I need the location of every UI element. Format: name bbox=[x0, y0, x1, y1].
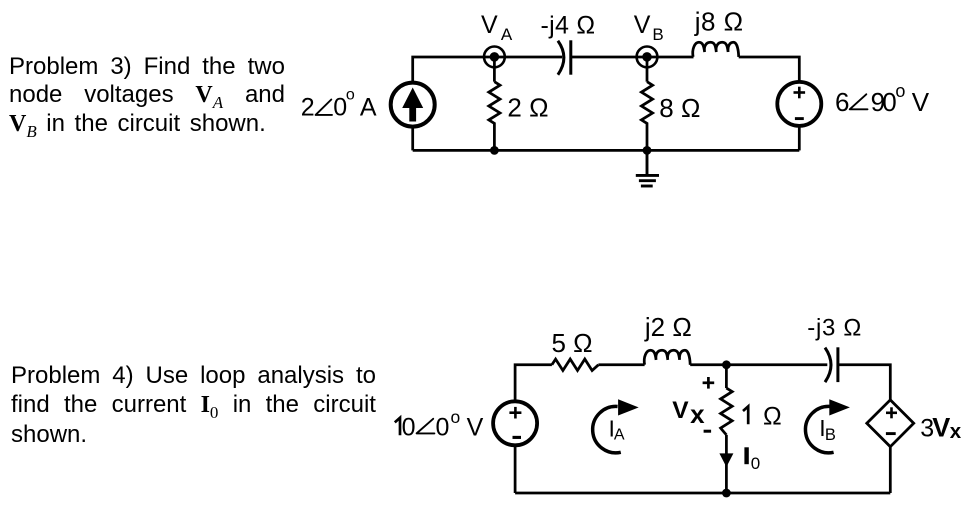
wire node VA to resistor 2ohm bbox=[493, 57, 496, 82]
wire top rail right segment (inductor to voltage source) bbox=[739, 57, 800, 81]
svg-text:V: V bbox=[672, 397, 689, 424]
node VB circle bbox=[637, 47, 658, 68]
node VA dot bbox=[490, 52, 500, 62]
svg-text:B: B bbox=[652, 25, 663, 44]
dependent source minus sign bbox=[886, 432, 896, 435]
svg-text:o: o bbox=[346, 87, 355, 104]
wire left drop below current source bbox=[411, 128, 414, 150]
label 1 ohm bbox=[743, 406, 748, 424]
svg-text:A: A bbox=[614, 426, 625, 443]
label minus of Vx bbox=[704, 430, 712, 433]
wire top rail mid segment (capacitor to inductor) bbox=[571, 56, 694, 59]
label 10 angle 0 V bbox=[395, 418, 400, 436]
svg-text:V: V bbox=[912, 87, 930, 117]
svg-text:j2 Ω: j2 Ω bbox=[644, 312, 692, 342]
loop current IB arc bbox=[805, 406, 833, 452]
node VA circle bbox=[484, 47, 505, 68]
ground symbol bbox=[636, 150, 659, 186]
svg-text:-j3 Ω: -j3 Ω bbox=[807, 314, 862, 341]
resistor R 2ohm zigzag bbox=[489, 82, 500, 151]
wire node VB to resistor 8ohm bbox=[646, 57, 649, 82]
svg-text:o: o bbox=[895, 81, 905, 101]
voltage source 6V minus sign bbox=[795, 117, 804, 120]
wire 1ohm to bottom junction (I0 arrow stem) bbox=[725, 435, 728, 493]
svg-text:x: x bbox=[950, 420, 962, 443]
voltage source 6V plus sign bbox=[794, 87, 806, 99]
svg-text:6: 6 bbox=[835, 87, 849, 117]
current source arrow bbox=[402, 88, 423, 122]
wire 5ohm to inductor j2 bbox=[598, 363, 644, 366]
capacitor -j4 right plate bbox=[569, 40, 572, 74]
svg-text:A: A bbox=[360, 94, 377, 122]
wire top junction down to 1ohm bbox=[725, 365, 728, 388]
capacitor -j4 left curved plate bbox=[558, 41, 564, 75]
label I0 bbox=[744, 447, 748, 464]
svg-text:2 Ω: 2 Ω bbox=[507, 93, 548, 123]
loop current IA arrowhead bbox=[618, 399, 639, 415]
wire right drop below source to bottom rail bbox=[798, 127, 801, 150]
svg-text:-j4 Ω: -j4 Ω bbox=[541, 11, 596, 39]
svg-text:j8 Ω: j8 Ω bbox=[694, 7, 744, 37]
junction dot bottom of 1ohm bbox=[722, 489, 731, 498]
wire diamond bottom to bottom rail bbox=[889, 447, 892, 494]
svg-text:V: V bbox=[481, 11, 498, 39]
svg-text:5 Ω: 5 Ω bbox=[552, 328, 593, 358]
resistor R 8ohm zigzag bbox=[641, 82, 652, 151]
wire bottom rail of problem 4 circuit bbox=[515, 492, 890, 495]
capacitor -j3 left curved plate bbox=[825, 348, 831, 383]
resistor 1ohm zigzag bbox=[721, 388, 733, 435]
wire capacitor -j3 to right corner, down to diamond bbox=[838, 365, 890, 400]
svg-text:Ω: Ω bbox=[763, 402, 782, 430]
current source I 2A circle bbox=[391, 83, 435, 127]
inductor j2 coil bbox=[644, 350, 690, 365]
svg-text:0: 0 bbox=[751, 454, 760, 473]
dependent source plus sign bbox=[886, 407, 897, 418]
svg-text:0: 0 bbox=[402, 413, 416, 441]
dependent source diamond 3Vx bbox=[867, 400, 914, 447]
inductor j8 coil bbox=[693, 42, 739, 57]
Problem 3 statement text bbox=[9, 53, 285, 139]
svg-text:V: V bbox=[634, 11, 651, 39]
voltage source 10V circle bbox=[493, 401, 537, 445]
resistor 5ohm zigzag bbox=[552, 359, 599, 370]
svg-text:o: o bbox=[451, 407, 461, 427]
wire bottom rail of problem 3 circuit bbox=[413, 149, 800, 152]
loop current IA arc bbox=[593, 406, 621, 452]
current I0 arrowhead bbox=[719, 453, 733, 467]
junction dot top of 1ohm bbox=[722, 360, 731, 369]
Problem 4 statement text bbox=[11, 361, 376, 449]
wire top rail: source to 5ohm bbox=[515, 365, 552, 400]
wire top rail left segment (current source to capacitor) bbox=[413, 57, 563, 81]
svg-text:8 Ω: 8 Ω bbox=[659, 93, 700, 123]
voltage source 10V plus sign bbox=[509, 407, 521, 419]
loop current IB arrowhead bbox=[829, 399, 850, 415]
junction dot below 2ohm bbox=[490, 146, 499, 155]
svg-text:V: V bbox=[467, 413, 484, 441]
svg-text:A: A bbox=[501, 25, 513, 44]
svg-text:2: 2 bbox=[301, 94, 315, 122]
svg-text:0: 0 bbox=[436, 413, 450, 441]
svg-text:B: B bbox=[825, 426, 836, 444]
voltage source 10V minus sign bbox=[513, 436, 522, 439]
node VB dot bbox=[642, 52, 652, 62]
junction dot below 8ohm bbox=[643, 146, 652, 155]
capacitor -j3 right plate bbox=[836, 347, 839, 382]
svg-text:x: x bbox=[690, 399, 705, 429]
wire inductor j2 to capacitor -j3 bbox=[690, 363, 827, 366]
wire source bottom to bottom rail bbox=[514, 447, 517, 493]
svg-text:V: V bbox=[932, 412, 950, 442]
label plus of Vx bbox=[703, 377, 715, 389]
voltage source 6V circle bbox=[777, 82, 821, 126]
